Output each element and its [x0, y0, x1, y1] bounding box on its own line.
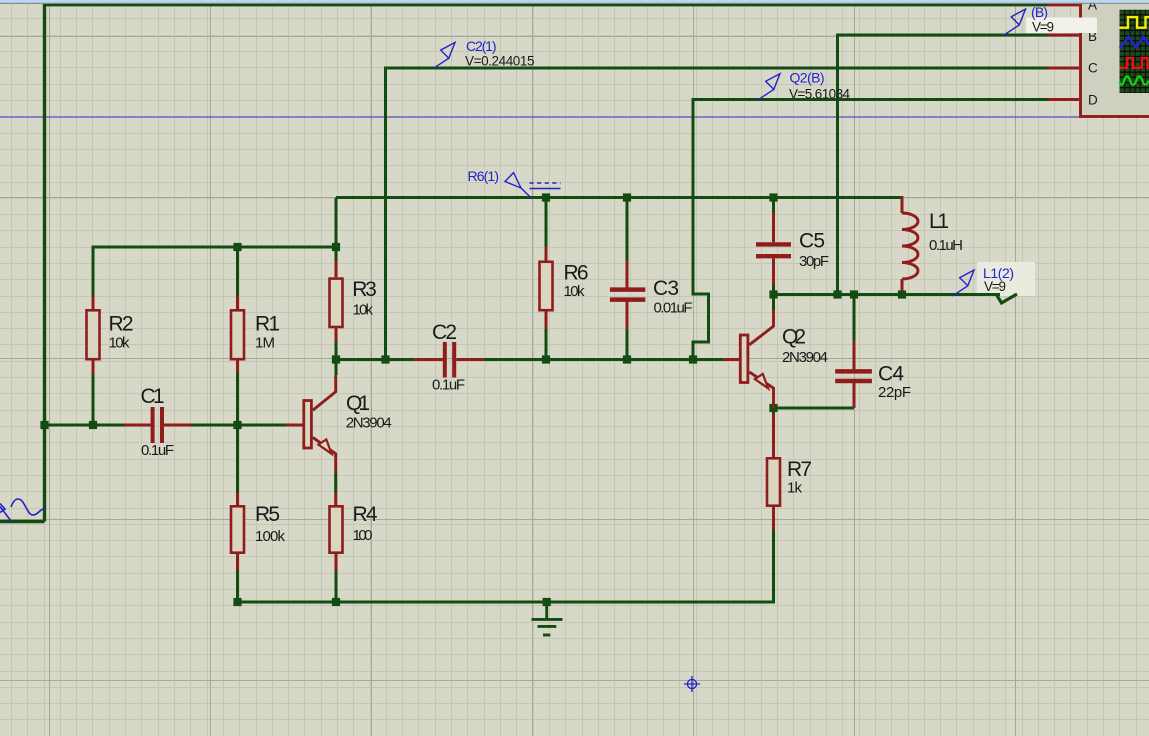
- transistor Q1: [286, 375, 392, 473]
- wire: C3 bottom to C2 row: [626, 328, 629, 359]
- sheet border blue line: [0, 116, 1079, 118]
- node: L1 bottom on collector row: [898, 290, 906, 298]
- node: trunk / input row: [40, 421, 48, 429]
- svg-text:(B): (B): [1031, 4, 1048, 20]
- node: C2(1) on C2 row: [381, 355, 389, 363]
- input source sine squiggle: [0, 507, 11, 522]
- svg-text:30pF: 30pF: [799, 253, 829, 270]
- wire: R3 column from power rail down: [335, 198, 338, 262]
- wire: C2 row right segment to Q2 base: [483, 358, 724, 361]
- node: C5 top on power rail: [769, 193, 777, 201]
- wire: C3 column from rail: [626, 198, 629, 261]
- origin marker: [684, 676, 700, 692]
- probe R6(1): [505, 173, 561, 198]
- svg-text:Q1: Q1: [346, 392, 370, 415]
- node: R3 top on rail y247: [332, 243, 340, 251]
- wire: C4 column from collector node: [853, 295, 856, 342]
- oscilloscope pin D stub: [1047, 98, 1079, 101]
- node: R3 bottom / C2 row: [332, 355, 340, 363]
- wire: Q1 emitter to R4 top: [334, 473, 337, 493]
- capacitor C5: [756, 213, 829, 286]
- wire: C2(1) net vertical and horizontal to scope C: [386, 68, 1048, 360]
- wire: dangling end hook of output wire: [997, 294, 1017, 303]
- svg-text:100: 100: [353, 527, 373, 544]
- node: C3 bottom on C2 row: [623, 355, 631, 363]
- resistor R5: [231, 493, 286, 571]
- svg-text:Q2(B): Q2(B): [790, 70, 825, 86]
- capacitor C3: [610, 261, 693, 329]
- wire: emitter row to R7 top: [772, 408, 775, 414]
- node: ground symbol on ground rail: [543, 598, 551, 606]
- probe Q2(B): [759, 74, 781, 100]
- svg-text:10k: 10k: [353, 302, 374, 319]
- wire: R1 bottom through node row to R5 top: [236, 360, 239, 506]
- wire: R6 bottom to C2 row: [545, 312, 548, 360]
- svg-text:0.1uF: 0.1uF: [141, 442, 174, 459]
- svg-text:R6: R6: [564, 262, 589, 285]
- svg-text:C2: C2: [432, 321, 457, 344]
- inductor L1: [902, 196, 963, 291]
- svg-text:V=9: V=9: [1032, 20, 1054, 35]
- wire: collector node row y294.5: [774, 293, 1001, 296]
- wire: C2 row left segment: [336, 358, 415, 361]
- node: C3 top on power rail: [623, 193, 631, 201]
- oscilloscope trace D green sine: [1120, 77, 1149, 85]
- svg-text:2N3904: 2N3904: [782, 349, 828, 366]
- resistor R6: [540, 247, 589, 330]
- svg-text:10k: 10k: [109, 335, 131, 352]
- node: R6 top on power rail: [542, 193, 550, 201]
- probe L1(2): [953, 265, 1015, 296]
- wire: L1 bottom stub to collector node: [901, 290, 904, 295]
- wire: input source bottom horizontal: [0, 520, 45, 523]
- svg-text:V=5.61034: V=5.61034: [789, 86, 850, 101]
- wire: Q2 collector green stub: [772, 295, 775, 311]
- ground: [532, 602, 563, 635]
- svg-text:R6(1): R6(1): [468, 168, 500, 184]
- wire: R2 bottom to node row: [92, 361, 95, 426]
- svg-text:R2: R2: [109, 313, 134, 336]
- node: R1 top on rail y247: [233, 243, 241, 251]
- node: Q2 collector / C5 bottom: [769, 290, 777, 298]
- svg-text:C5: C5: [799, 230, 825, 253]
- probe L1(2) label background: [977, 262, 1035, 296]
- oscilloscope pin B stub: [1047, 34, 1079, 37]
- svg-text:C3: C3: [653, 277, 679, 300]
- svg-text:10k: 10k: [564, 283, 586, 300]
- wire: R1 column top: [236, 247, 239, 309]
- oscilloscope body: [1047, 0, 1149, 117]
- svg-text:R4: R4: [353, 503, 378, 526]
- svg-text:R7: R7: [787, 458, 812, 481]
- window top strip overlay: [0, 0, 1149, 3]
- node: R2 bottom on input row: [89, 421, 97, 429]
- node: Q2 emitter / C4 / R7: [769, 404, 777, 412]
- svg-text:L1: L1: [929, 210, 949, 233]
- wire: R3 bottom to C2 row and Q1 collector: [335, 328, 338, 375]
- wire: ground rail and R7 column up: [238, 531, 774, 603]
- wire: C5 column from rail: [772, 198, 775, 213]
- node: R6 bottom on C2 row: [542, 355, 550, 363]
- capacitor C2: [415, 321, 484, 394]
- wire: power rail y197: [336, 196, 902, 199]
- wire: Q2(B) net from scope D down with jog to base node: [693, 100, 1047, 360]
- oscilloscope trace A yellow square: [1120, 17, 1149, 28]
- svg-text:D: D: [1088, 93, 1098, 108]
- svg-text:C4: C4: [878, 363, 904, 386]
- node: Q2 base node on C2 row: [689, 355, 697, 363]
- node: C4 top on collector row: [850, 290, 858, 298]
- svg-text:2N3904: 2N3904: [346, 415, 392, 432]
- wire: node row y425 from C1 to Q1 base: [191, 424, 287, 427]
- probe (B): [1004, 4, 1097, 35]
- svg-text:0.01uF: 0.01uF: [654, 300, 693, 317]
- oscilloscope pin A stub: [1047, 3, 1079, 6]
- wire: R2 top to rail y247 over to R3 column: [93, 247, 336, 309]
- node: R5 bottom on ground rail: [233, 598, 241, 606]
- top window strip: [0, 0, 1149, 3]
- svg-text:100k: 100k: [255, 528, 286, 545]
- node: R1/R5/C1 junction: [233, 421, 241, 429]
- transistor Q2: [724, 310, 774, 408]
- oscilloscope trace B blue sine: [1120, 37, 1149, 48]
- oscilloscope trace C red square: [1120, 58, 1149, 68]
- wire: (B) net from scope B down to collector node: [838, 35, 1048, 295]
- wire: R4 bottom to ground rail: [335, 554, 338, 602]
- svg-text:V=0.244015: V=0.244015: [465, 54, 535, 69]
- capacitor C1: [124, 385, 191, 459]
- oscilloscope screen: [1120, 10, 1149, 93]
- svg-text:V=9: V=9: [984, 279, 1006, 294]
- resistor R1: [231, 296, 280, 373]
- probe C2(1): [434, 42, 456, 68]
- svg-text:Q2: Q2: [782, 326, 806, 349]
- resistor R4: [330, 493, 378, 571]
- svg-text:C2(1): C2(1): [466, 38, 497, 54]
- node: R4 bottom on ground rail: [332, 598, 340, 606]
- wire: C4 bottom to emitter row: [774, 407, 855, 410]
- svg-text:22pF: 22pF: [878, 384, 911, 401]
- resistor R2: [87, 296, 134, 375]
- svg-text:C1: C1: [141, 385, 165, 408]
- wire: R5 bottom to ground rail: [236, 554, 239, 602]
- oscilloscope pin C stub: [1047, 67, 1079, 70]
- svg-text:1k: 1k: [787, 480, 803, 497]
- svg-text:0.1uF: 0.1uF: [432, 377, 465, 394]
- resistor R3: [330, 261, 377, 342]
- svg-text:0.1uH: 0.1uH: [929, 237, 963, 254]
- node: (B) net on collector row: [833, 290, 841, 298]
- wire: R6 column from rail: [545, 198, 548, 247]
- svg-text:R3: R3: [352, 278, 377, 301]
- svg-text:R5: R5: [255, 503, 280, 526]
- wire: top feed to oscilloscope A: [45, 3, 1048, 6]
- capacitor C4: [835, 341, 911, 408]
- svg-text:R1: R1: [255, 313, 280, 336]
- resistor R7: [767, 413, 812, 531]
- wire: C5 bottom to collector node: [772, 285, 775, 295]
- svg-text:1M: 1M: [255, 335, 275, 352]
- wire: node row y425 from trunk to C1: [45, 424, 126, 427]
- wire: left trunk vertical from top feed to input row: [43, 4, 46, 522]
- svg-text:C: C: [1088, 61, 1098, 76]
